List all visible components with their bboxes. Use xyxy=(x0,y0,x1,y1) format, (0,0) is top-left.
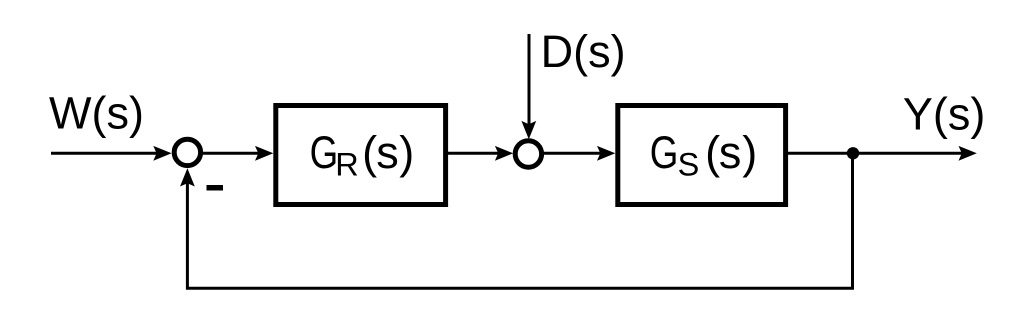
arrowhead output Y(s) xyxy=(959,146,977,161)
summing junction S1 xyxy=(174,139,200,165)
svg-text:Y(s): Y(s) xyxy=(903,88,986,139)
block GS plant xyxy=(618,106,786,205)
wire S2 to GS block xyxy=(544,152,602,155)
svg-text:W(s): W(s) xyxy=(49,88,144,139)
arrowhead into GS block xyxy=(597,146,615,161)
wire D(s) down into S2 xyxy=(528,34,531,126)
wire GS to output Y(s) xyxy=(786,152,963,155)
wire S1 to GR block xyxy=(203,152,260,155)
arrowhead into GR block xyxy=(255,146,273,161)
arrowhead feedback into S1 xyxy=(180,168,195,186)
svg-text:D(s): D(s) xyxy=(541,26,626,77)
arrowhead into summing junction S1 xyxy=(153,146,171,161)
block GR controller xyxy=(276,106,446,205)
wire GR to summing junction S2 xyxy=(448,152,500,155)
arrowhead of D(s) into S2 xyxy=(521,121,536,139)
junction dot on output wire xyxy=(847,147,859,159)
wire input W(s) to summing junction xyxy=(51,152,158,155)
minus sign at S1 xyxy=(207,185,224,191)
arrowhead into summing junction S2 xyxy=(495,146,513,161)
summing junction S2 xyxy=(515,141,541,167)
wire feedback: down from dot, across bottom, up into S1 xyxy=(187,153,852,288)
svg-text:GR(s): GR(s) xyxy=(310,127,415,182)
